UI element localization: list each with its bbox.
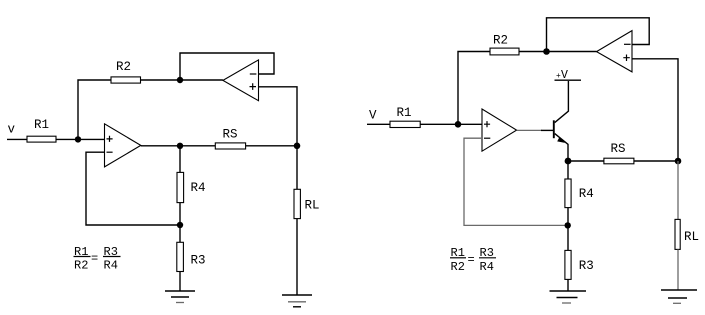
svg-text:R3: R3: [579, 259, 594, 273]
svg-text:v: v: [8, 123, 16, 137]
wire U3 minus input feedback: [464, 138, 568, 225]
wire input to R1: [7, 138, 27, 140]
wire R4 to node E: [179, 203, 181, 225]
node G junction: [543, 48, 550, 55]
wire R3 to ground: [567, 279, 569, 291]
resistor RS (right): [604, 142, 634, 164]
node D junction: [294, 143, 301, 150]
svg-text:R1: R1: [34, 118, 49, 132]
svg-text:V: V: [369, 109, 377, 123]
resistor R3 (right): [565, 250, 594, 279]
wire RS to node I: [634, 160, 678, 162]
formula R1/R2 = R3/R4 (right): [450, 246, 496, 274]
node J junction: [565, 222, 571, 228]
ground (below R3): [165, 291, 195, 303]
wire U1 output: [141, 145, 180, 147]
wire U2 plus input to RS rail: [259, 87, 298, 146]
node E junction: [177, 222, 183, 228]
formula R1/R2 = R3/R4 (left): [74, 245, 121, 272]
svg-text:R1: R1: [397, 106, 412, 120]
svg-text:R3: R3: [191, 254, 206, 268]
op-amp U3: [482, 109, 517, 151]
node H junction (emitter rail): [565, 158, 572, 165]
op-amp U2: [223, 60, 259, 101]
wire node J to R3: [567, 225, 569, 250]
wire U4 plus input to RS rail: [632, 59, 678, 161]
wire node H down to R4: [567, 161, 569, 179]
resistor R2: [111, 60, 141, 83]
resistor R2 (right): [490, 34, 519, 55]
wire rail to RS: [180, 145, 215, 147]
resistor R1: [27, 118, 56, 142]
wire R1 to op-amp U3 plus input: [420, 123, 482, 125]
svg-text:R2: R2: [74, 258, 88, 272]
resistor R4 (right): [565, 179, 594, 208]
resistor R4: [177, 172, 206, 202]
svg-text:RL: RL: [684, 230, 699, 244]
ground (below R3 right): [550, 291, 587, 303]
wire node F up to R2 level: [458, 52, 490, 125]
svg-text:RS: RS: [223, 128, 238, 142]
ground (below RL right): [661, 290, 697, 303]
svg-text:RL: RL: [305, 199, 320, 213]
resistor RS: [215, 128, 245, 150]
wire U2 feedback (minus input to node B): [180, 53, 274, 80]
svg-text:R4: R4: [191, 181, 206, 195]
resistor R3: [177, 242, 206, 271]
svg-text:=: =: [91, 252, 98, 266]
wire R2 to op-amp U2 apex: [141, 79, 223, 81]
svg-text:R2: R2: [451, 260, 465, 274]
wire node I down to RL: [677, 161, 679, 219]
wire R3 to ground: [179, 272, 181, 292]
resistor RL: [294, 189, 320, 218]
svg-text:R2: R2: [493, 34, 508, 48]
wire node A up to R2 level: [78, 80, 111, 139]
transistor Q1: [554, 81, 569, 161]
svg-text:=: =: [468, 253, 475, 267]
node I junction: [675, 158, 682, 165]
power +V: [555, 69, 582, 82]
node C junction (output rail left): [177, 143, 183, 149]
wire rail to RS: [568, 160, 604, 162]
wire R1 to op-amp U1 plus input: [56, 138, 105, 140]
wire input to R1: [367, 123, 390, 125]
wire node D down to RL: [296, 146, 298, 190]
wire node C down to R4: [179, 146, 181, 173]
wire U4 feedback (minus input to node G): [547, 18, 650, 52]
wire RL to ground: [677, 249, 679, 289]
wire U3 output to transistor base: [517, 129, 542, 131]
wire U1 minus input feedback: [86, 152, 180, 225]
svg-text:R2: R2: [116, 60, 131, 74]
wire R4 to node J: [567, 208, 569, 226]
op-amp U4: [597, 31, 633, 72]
ground (below RL): [282, 295, 312, 307]
svg-text:RS: RS: [611, 142, 626, 156]
resistor R1 (right): [390, 106, 420, 128]
op-amp U1: [105, 124, 141, 167]
wire RL to ground: [296, 219, 298, 295]
wire R2 to op-amp U4 apex: [519, 51, 597, 53]
node B junction: [177, 77, 183, 83]
svg-text:R4: R4: [104, 258, 118, 272]
wire node E to R3: [179, 225, 181, 242]
wire RS to node D: [246, 145, 297, 147]
node F junction: [455, 121, 462, 128]
node A junction: [75, 136, 81, 142]
svg-text:R4: R4: [579, 187, 594, 201]
resistor RL (right): [675, 219, 699, 249]
svg-text:R4: R4: [480, 260, 494, 274]
